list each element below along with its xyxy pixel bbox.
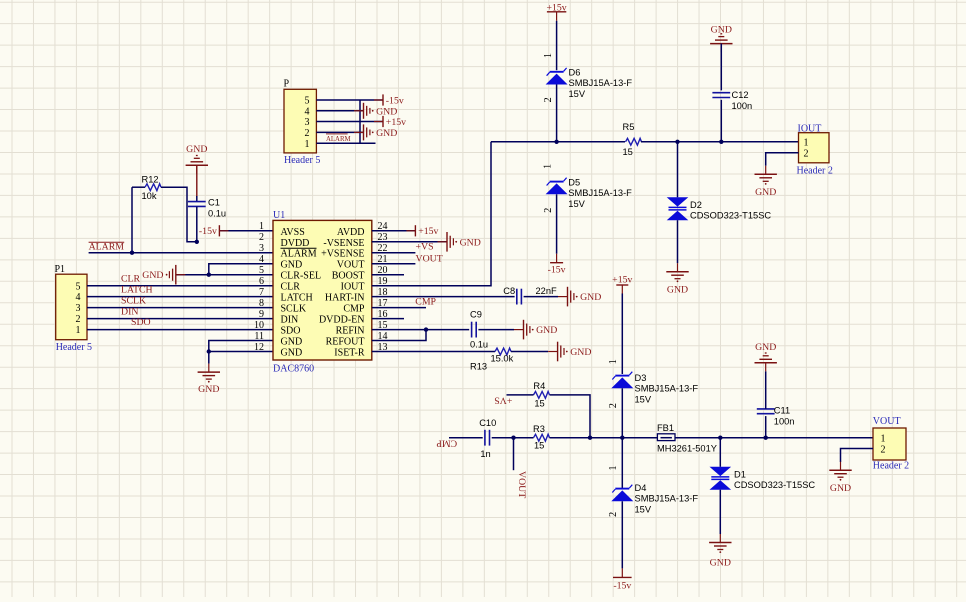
svg-text:+15v: +15v <box>386 117 406 128</box>
svg-text:VOUT: VOUT <box>337 260 365 271</box>
power +15v at P pin3 <box>374 116 406 128</box>
capacitor C8 <box>503 286 557 304</box>
wire gnd to C12 <box>720 44 722 91</box>
svg-text:IOUT: IOUT <box>341 282 365 293</box>
svg-text:P: P <box>284 79 290 90</box>
resistor R5 <box>623 122 642 157</box>
svg-text:GND: GND <box>570 347 591 358</box>
svg-text:GND: GND <box>755 342 776 353</box>
svg-text:GND: GND <box>710 557 731 568</box>
wire R4 to +VS stub <box>507 394 534 396</box>
wire P1 pin2 to U1 pin9 (DIN) <box>87 318 273 320</box>
svg-text:C11: C11 <box>774 405 790 415</box>
svg-text:C8: C8 <box>503 286 515 296</box>
wire C11 node to VOUT header <box>766 437 873 439</box>
wire +15v to D6 <box>556 21 558 70</box>
wire -15v to U1 pin1 (AVSS) <box>219 230 273 232</box>
svg-text:R3: R3 <box>533 424 545 434</box>
svg-text:2: 2 <box>804 149 809 160</box>
svg-text:GND: GND <box>142 270 163 281</box>
resistor R3 <box>533 424 550 451</box>
ground after R13 <box>548 342 591 362</box>
wire P pin1 ALARM stub <box>316 142 375 144</box>
diode D5 <box>546 177 633 209</box>
wire CMP net to C10 <box>449 437 483 439</box>
svg-text:1: 1 <box>543 53 554 58</box>
ferrite bead FB1 <box>657 423 717 453</box>
svg-text:R5: R5 <box>623 122 635 132</box>
wire U1 pin21 (VOUT) stub <box>372 263 416 265</box>
svg-text:+VS: +VS <box>416 242 434 253</box>
svg-text:SCLK: SCLK <box>281 304 307 315</box>
svg-text:15: 15 <box>623 147 633 157</box>
svg-text:+VS: +VS <box>494 395 512 406</box>
wire D1 node to C11 node <box>720 437 765 439</box>
svg-text:5: 5 <box>259 265 264 276</box>
svg-text:7: 7 <box>259 287 264 298</box>
TVS diode D1 <box>710 467 816 490</box>
svg-text:VOUT: VOUT <box>873 416 901 427</box>
svg-text:-15v: -15v <box>548 264 566 275</box>
svg-text:3: 3 <box>259 243 264 254</box>
svg-text:LATCH: LATCH <box>281 293 313 304</box>
svg-text:REFOUT: REFOUT <box>326 337 365 348</box>
ground at U1 pin5 (CLR-SEL) <box>142 265 185 285</box>
capacitor C10 <box>479 418 496 459</box>
ground at VOUT pin2 <box>829 462 851 495</box>
svg-text:GND: GND <box>376 128 397 139</box>
connector P1 (Header 5) <box>55 264 93 353</box>
svg-text:GND: GND <box>376 106 397 117</box>
svg-text:GND: GND <box>580 292 601 303</box>
ground after C8 <box>558 287 601 307</box>
wire U1 pin22 (+VS) stub <box>372 252 416 254</box>
svg-text:CMP: CMP <box>436 438 457 449</box>
svg-text:AVSS: AVSS <box>281 227 305 238</box>
svg-text:ALARM: ALARM <box>281 249 317 260</box>
svg-text:2: 2 <box>543 97 554 102</box>
ground at IOUT pin2 <box>755 166 777 198</box>
svg-text:REFIN: REFIN <box>336 326 365 337</box>
wire P1 pin4 to U1 pin7 (LATCH) <box>87 296 273 298</box>
diode D3 <box>611 372 698 405</box>
wire main row to D1 <box>719 438 721 467</box>
svg-text:8: 8 <box>259 298 264 309</box>
svg-text:D3: D3 <box>635 373 647 383</box>
svg-text:6: 6 <box>259 276 264 287</box>
power -15v at U1 pin1 <box>199 225 228 237</box>
wire P pin3 to +15v bar <box>316 121 383 123</box>
svg-text:C1: C1 <box>208 198 220 208</box>
svg-text:22nF: 22nF <box>536 286 558 296</box>
svg-text:-15v: -15v <box>386 95 404 106</box>
svg-text:10: 10 <box>254 320 264 331</box>
svg-text:0.1u: 0.1u <box>208 209 226 219</box>
svg-text:5: 5 <box>305 96 310 107</box>
svg-text:ISET-R: ISET-R <box>334 348 365 359</box>
wire IOUT pin2 to ground <box>766 153 799 166</box>
ALARM pin active-low overline <box>281 247 317 249</box>
svg-text:C10: C10 <box>479 418 496 428</box>
wire R5 row to D2 <box>677 142 679 198</box>
svg-text:12: 12 <box>254 342 264 353</box>
svg-text:CDSOD323-T15SC: CDSOD323-T15SC <box>690 210 771 220</box>
ground after C9 <box>514 320 557 340</box>
svg-text:SCLK: SCLK <box>121 296 146 307</box>
svg-text:IOUT: IOUT <box>798 123 822 134</box>
wire U1 pin4 to tie <box>209 264 273 275</box>
svg-text:GND: GND <box>536 325 557 336</box>
wire C8 to ground <box>524 296 558 298</box>
svg-text:0.1u: 0.1u <box>470 339 488 349</box>
svg-text:2: 2 <box>305 128 310 139</box>
svg-text:GND: GND <box>281 337 303 348</box>
power +15v (above D3) <box>612 274 632 294</box>
svg-text:GND: GND <box>460 237 481 248</box>
junction C11 branch junction <box>764 436 768 440</box>
svg-text:GND: GND <box>830 483 851 494</box>
ground at P pin4 <box>354 103 397 119</box>
wire P1 pin5 to U1 pin6 (CLR) <box>87 285 273 287</box>
TVS diode D2 <box>667 197 772 220</box>
junction D1 branch junction <box>718 436 722 440</box>
wire +15v to D3 <box>621 294 623 375</box>
wire R5 row left <box>491 141 625 143</box>
diode D6 <box>546 67 633 99</box>
wire U1 pin20 stub <box>372 274 404 276</box>
wire R12 to C1 node <box>132 186 145 188</box>
junction R3/R4 junction <box>588 436 592 440</box>
svg-text:1: 1 <box>259 221 264 232</box>
svg-text:GND: GND <box>711 25 732 36</box>
svg-text:GND: GND <box>281 260 303 271</box>
wire C12 to R5 row <box>720 100 722 142</box>
svg-text:SMBJ15A-13-F: SMBJ15A-13-F <box>569 78 633 88</box>
svg-text:SMBJ15A-13-F: SMBJ15A-13-F <box>635 384 699 394</box>
svg-text:1: 1 <box>608 359 619 364</box>
svg-text:15V: 15V <box>569 89 586 99</box>
wire U1 pin15 to C9 node <box>372 329 469 331</box>
svg-text:D6: D6 <box>569 67 581 77</box>
op-amp/IC U1 DAC8760 <box>254 210 388 375</box>
svg-text:U1: U1 <box>273 210 285 221</box>
svg-text:ALARM: ALARM <box>326 136 351 143</box>
svg-text:1: 1 <box>542 164 553 169</box>
wire D1 to ground <box>719 490 721 534</box>
junction pin14/pin15 junction <box>424 327 428 331</box>
resistor R12 <box>142 174 162 201</box>
svg-text:CLR: CLR <box>121 273 141 284</box>
svg-text:100n: 100n <box>732 101 753 111</box>
svg-text:LATCH: LATCH <box>121 285 153 296</box>
net label ALARM (P pin1) <box>326 134 351 143</box>
power -15v (below D5) <box>548 254 566 276</box>
power +15v (top) <box>546 3 566 21</box>
ground above C11 <box>755 342 777 371</box>
svg-text:1n: 1n <box>480 449 490 459</box>
wire U1 pin17 (CMP) stub <box>372 307 426 309</box>
svg-text:3: 3 <box>76 303 81 314</box>
diode D4 <box>611 483 698 515</box>
wire U1 pin12 to ground <box>209 351 273 353</box>
wire C1 to U1 pin2 node <box>196 207 198 242</box>
wire column to FB1 <box>622 437 657 439</box>
svg-text:1: 1 <box>804 137 809 148</box>
svg-text:15V: 15V <box>568 199 585 209</box>
svg-text:R12: R12 <box>142 174 159 184</box>
svg-text:Header 2: Header 2 <box>797 166 833 177</box>
svg-text:+VSENSE: +VSENSE <box>321 249 364 260</box>
wire U1 pin16 stub <box>372 318 404 320</box>
wire P1 pin1 to U1 pin10 (SDO) <box>87 329 273 331</box>
junction D3/D4 column junction <box>620 436 624 440</box>
capacitor C1 <box>188 198 226 219</box>
svg-text:2: 2 <box>76 314 81 325</box>
wire P pin5 to -15v bar <box>316 99 383 101</box>
resistor R4 <box>533 381 549 408</box>
svg-text:Header 5: Header 5 <box>284 155 320 166</box>
junction pin4/pin5 junction <box>207 273 211 277</box>
junction pin11/pin12 junction <box>207 349 211 353</box>
junction R12 / ALARM junction <box>130 251 134 255</box>
junction junction at C12 branch <box>719 140 723 144</box>
wire R3 to R4 node <box>550 437 591 439</box>
svg-text:5: 5 <box>76 281 81 292</box>
capacitor C12 <box>712 90 752 111</box>
svg-text:15: 15 <box>534 441 544 451</box>
ground below D1 <box>709 534 731 568</box>
svg-text:Header 2: Header 2 <box>873 461 909 472</box>
wire R5 row right to IOUT <box>641 141 799 143</box>
svg-text:R13: R13 <box>470 362 487 372</box>
wire R12 left leg down to ALARM net <box>131 187 133 253</box>
svg-text:+15v: +15v <box>546 3 566 14</box>
svg-text:ALARM: ALARM <box>89 241 125 252</box>
svg-text:10k: 10k <box>142 191 157 201</box>
wire D2 to ground <box>677 220 679 263</box>
wire VOUT node to R3 <box>514 437 534 439</box>
wire C11 to ground <box>765 371 767 409</box>
svg-text:DAC8760: DAC8760 <box>273 364 314 375</box>
svg-text:D5: D5 <box>568 177 580 187</box>
wire D4 to -15v <box>621 501 623 568</box>
svg-text:R4: R4 <box>533 381 545 391</box>
svg-text:GND: GND <box>186 144 207 155</box>
wire ALARM net to U1 pin3 <box>89 252 273 254</box>
wire U1 pin14 tie up <box>372 330 426 341</box>
svg-text:15: 15 <box>534 399 544 409</box>
svg-text:1: 1 <box>608 466 619 471</box>
junction C1 / DVDD junction <box>195 240 199 244</box>
ground at U1 pin23 <box>438 232 481 252</box>
wire P1 pin3 to U1 pin8 (SCLK) <box>87 307 273 309</box>
junction VOUT label junction <box>511 436 515 440</box>
junction D6/D5/R5 junction <box>554 140 558 144</box>
svg-text:CMP: CMP <box>343 304 365 315</box>
svg-text:VOUT: VOUT <box>416 253 443 264</box>
wire C9 to ground <box>478 329 514 331</box>
wire U1 pin24 to +15v <box>372 230 416 232</box>
wire D3 to main row <box>621 388 623 437</box>
svg-text:GND: GND <box>281 348 303 359</box>
svg-text:SDO: SDO <box>281 326 301 337</box>
ground below U1 <box>198 364 220 396</box>
svg-text:1: 1 <box>881 433 886 444</box>
svg-text:GND: GND <box>198 384 219 395</box>
svg-text:HART-IN: HART-IN <box>325 293 365 304</box>
svg-text:GND: GND <box>667 285 688 296</box>
svg-text:4: 4 <box>259 254 264 265</box>
ground at P pin2 <box>354 124 397 140</box>
svg-text:2: 2 <box>543 208 554 213</box>
svg-text:CLR: CLR <box>281 282 301 293</box>
svg-text:15V: 15V <box>635 394 652 404</box>
svg-text:3: 3 <box>305 117 310 128</box>
capacitor C11 <box>757 405 795 426</box>
wire U1 pin23 to ground <box>372 241 447 243</box>
wire R13 to ground <box>511 351 548 353</box>
wire U1 pin13 to R13 <box>372 351 495 353</box>
wire gnd stem below U1 <box>208 352 210 364</box>
svg-text:15V: 15V <box>635 504 652 514</box>
power -15v (bottom) <box>613 568 632 591</box>
wire U1 pin5 to ground <box>176 274 273 276</box>
wire FB1 to D1 node <box>675 437 720 439</box>
svg-text:C12: C12 <box>732 90 749 100</box>
svg-text:SMBJ15A-13-F: SMBJ15A-13-F <box>568 188 632 198</box>
svg-text:11: 11 <box>254 331 264 342</box>
wire VOUT pin2 to ground <box>841 449 874 463</box>
svg-text:4: 4 <box>305 106 310 117</box>
svg-text:CLR-SEL: CLR-SEL <box>281 271 322 282</box>
svg-text:SMBJ15A-13-F: SMBJ15A-13-F <box>635 494 699 504</box>
wire D6 to R5 node <box>556 85 558 142</box>
wire R12 right to corner down to U1 pin2 <box>161 187 197 242</box>
svg-text:P1: P1 <box>55 264 66 275</box>
wire R4 branch <box>550 395 591 438</box>
ground below D2 <box>666 263 688 295</box>
junction junction at D2 branch <box>675 140 679 144</box>
resistor R13 <box>470 348 514 372</box>
svg-text:GND: GND <box>755 187 776 198</box>
svg-text:DVDD: DVDD <box>281 238 310 249</box>
svg-text:-15v: -15v <box>613 581 631 592</box>
connector IOUT (Header 2) <box>797 123 833 176</box>
svg-text:D1: D1 <box>734 469 746 479</box>
ground above C12 <box>710 25 732 53</box>
wire FB1 internal dash <box>661 437 672 439</box>
svg-text:1: 1 <box>76 325 81 336</box>
wire main row to D4 <box>621 438 623 489</box>
svg-text:CDSOD323-T15SC: CDSOD323-T15SC <box>734 480 815 490</box>
svg-text:BOOST: BOOST <box>332 271 365 282</box>
svg-text:DVDD-EN: DVDD-EN <box>319 315 365 326</box>
svg-text:2: 2 <box>259 232 264 243</box>
wire P pin2 to GND <box>316 131 363 133</box>
svg-text:C9: C9 <box>470 310 482 320</box>
svg-text:CMP: CMP <box>415 297 436 308</box>
svg-text:SDO: SDO <box>131 317 151 328</box>
svg-text:15.0k: 15.0k <box>491 354 514 364</box>
svg-text:2: 2 <box>881 445 886 456</box>
svg-text:D2: D2 <box>690 200 702 210</box>
ground above C1 <box>196 165 198 201</box>
connector P (Header 5) <box>284 79 321 167</box>
svg-text:2: 2 <box>608 512 619 517</box>
svg-text:-15v: -15v <box>199 226 217 237</box>
wire U1 pin11 to tie <box>209 341 273 352</box>
connector VOUT (Header 2) <box>873 416 909 472</box>
svg-text:AVDD: AVDD <box>337 227 365 238</box>
svg-text:MH3261-501Y: MH3261-501Y <box>657 443 717 453</box>
svg-text:D4: D4 <box>635 483 647 493</box>
svg-text:Header 5: Header 5 <box>56 342 92 353</box>
svg-text:-VSENSE: -VSENSE <box>323 238 364 249</box>
wire P pin4 to GND <box>316 110 363 112</box>
svg-text:+15v: +15v <box>612 274 632 285</box>
wire D5 to -15v <box>556 194 558 253</box>
svg-text:9: 9 <box>259 309 264 320</box>
wire U1 pin19 (IOUT) up to R5 row <box>372 142 491 286</box>
svg-text:FB1: FB1 <box>657 423 674 433</box>
svg-text:VOUT: VOUT <box>516 471 527 498</box>
wire R4 node to D3/D4 column <box>590 437 622 439</box>
svg-text:+15v: +15v <box>418 226 438 237</box>
power +15v at U1 pin24 <box>406 225 438 237</box>
svg-text:DIN: DIN <box>121 306 138 317</box>
wire VOUT label stub down <box>513 438 515 471</box>
svg-text:100n: 100n <box>774 417 795 427</box>
svg-text:4: 4 <box>76 292 81 303</box>
wire C10 to VOUT node <box>492 437 514 439</box>
wire main row to C11 <box>765 416 767 438</box>
svg-text:DIN: DIN <box>281 315 299 326</box>
capacitor C9 <box>470 310 488 350</box>
ground symbol above C1 <box>186 144 208 174</box>
svg-text:1: 1 <box>305 139 310 150</box>
svg-text:2: 2 <box>608 403 619 408</box>
wire U1 pin18 to C8 <box>372 296 515 298</box>
power -15v at P pin5 <box>374 94 404 106</box>
net label ALARM (U1 pin3) <box>89 241 125 252</box>
wire P vertical tie <box>359 100 361 143</box>
